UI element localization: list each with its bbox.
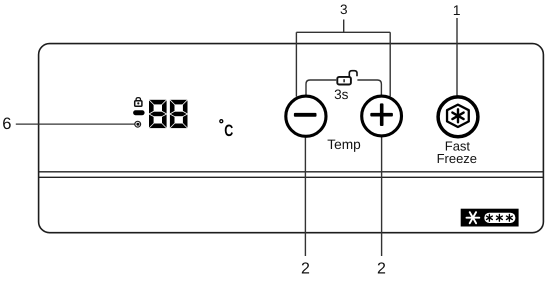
svg-text:3: 3 <box>340 2 348 17</box>
svg-text:2: 2 <box>377 261 386 276</box>
svg-text:Freeze: Freeze <box>437 151 477 166</box>
svg-text:3s: 3s <box>334 87 349 102</box>
svg-text:C: C <box>224 122 233 140</box>
svg-text:1: 1 <box>453 2 461 18</box>
svg-text:2: 2 <box>301 261 310 276</box>
svg-text:Temp: Temp <box>327 137 361 152</box>
svg-text:6: 6 <box>2 115 11 133</box>
